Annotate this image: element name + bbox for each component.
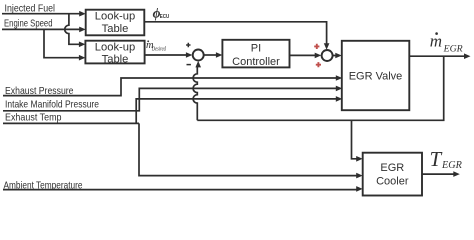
block: PI Controller xyxy=(222,40,289,68)
node: red plus sign lower at summing junction S2 xyxy=(316,62,321,67)
wire: exhaust pressure line to EGR valve input 2 xyxy=(3,78,337,96)
svg-text:Controller: Controller xyxy=(232,56,280,68)
node: minus sign at summing junction S1 xyxy=(187,64,191,66)
label: m-dot EGR xyxy=(430,31,463,54)
svg-text:EGR: EGR xyxy=(441,160,463,171)
wire: injected fuel branch with hop over engine speed line into Look-up Table 2 input 1 xyxy=(65,14,80,45)
label: Phi ECU xyxy=(153,6,170,21)
summing junction S2 xyxy=(322,50,333,61)
wire: m-dot EGR feedback line down and left xyxy=(197,56,443,120)
wire: summing junction S1 output to PI controller xyxy=(204,54,216,56)
svg-text:Exhaust Temp: Exhaust Temp xyxy=(5,113,62,124)
summing junction S1 xyxy=(193,50,204,61)
svg-text:PI: PI xyxy=(251,43,261,55)
svg-text:Cooler: Cooler xyxy=(376,175,409,187)
svg-text:Table: Table xyxy=(102,53,129,65)
wire: PI controller output to summing junction S2 xyxy=(290,54,316,56)
svg-text:EGR: EGR xyxy=(380,162,404,174)
label: m-dot Desired xyxy=(146,40,167,53)
wire: EGR cooler T EGR output line xyxy=(422,173,454,175)
node: plus sign at summing junction S1 xyxy=(186,43,190,47)
wire: intake manifold pressure line to EGR valve input 3 xyxy=(3,88,337,110)
svg-text:Look-up: Look-up xyxy=(95,42,135,54)
wire: engine speed line into Look-up Table 1 input 2 xyxy=(2,28,80,30)
wire: exhaust temp line, underline segment xyxy=(3,122,139,124)
block: EGR Cooler xyxy=(363,153,422,196)
svg-text:T: T xyxy=(430,147,443,171)
wire: engine speed branch into Look-up Table 2 input 2 xyxy=(44,29,80,57)
node: red plus sign upper at summing junction S2 xyxy=(314,44,319,49)
wire: m-dot desired line from Look-up Table 2 to summing junction S1 xyxy=(145,54,187,56)
svg-text:Intake Manifold Pressure: Intake Manifold Pressure xyxy=(5,99,99,110)
wire: summing junction S2 output to EGR Valve xyxy=(333,55,336,57)
svg-text:ECU: ECU xyxy=(160,14,170,20)
wire: feedback vertical rising to summing junction S1 with three hops xyxy=(193,66,197,120)
wire: EGR valve m-dot EGR output line xyxy=(409,55,464,57)
svg-text:Desired: Desired xyxy=(151,46,166,52)
wire: ambient temperature line to EGR Cooler input 3 xyxy=(3,189,357,191)
wire: phi ECU feed-forward line from Look-up Table 1 to summing junction S2 xyxy=(144,22,326,45)
svg-text:Engine Speed: Engine Speed xyxy=(4,18,53,29)
block: Look-up Table 1 xyxy=(86,10,145,36)
block: Look-up Table 2 xyxy=(85,41,144,66)
block: EGR Valve xyxy=(342,41,410,110)
wire: feedback branch down into EGR Cooler input 1 xyxy=(352,120,358,159)
svg-text:EGR Valve: EGR Valve xyxy=(349,70,403,82)
wire: injected fuel line into Look-up Table 1 input 1 xyxy=(2,13,80,15)
wire: exhaust temp branch down to EGR Cooler input 2 xyxy=(139,123,357,175)
svg-text:Look-up: Look-up xyxy=(95,11,135,23)
label: T EGR xyxy=(430,147,463,171)
wire: exhaust temp branch up to EGR valve input 4 with hop over feedback vertical xyxy=(136,99,336,124)
svg-text:Table: Table xyxy=(102,23,129,35)
svg-text:EGR: EGR xyxy=(443,43,463,54)
